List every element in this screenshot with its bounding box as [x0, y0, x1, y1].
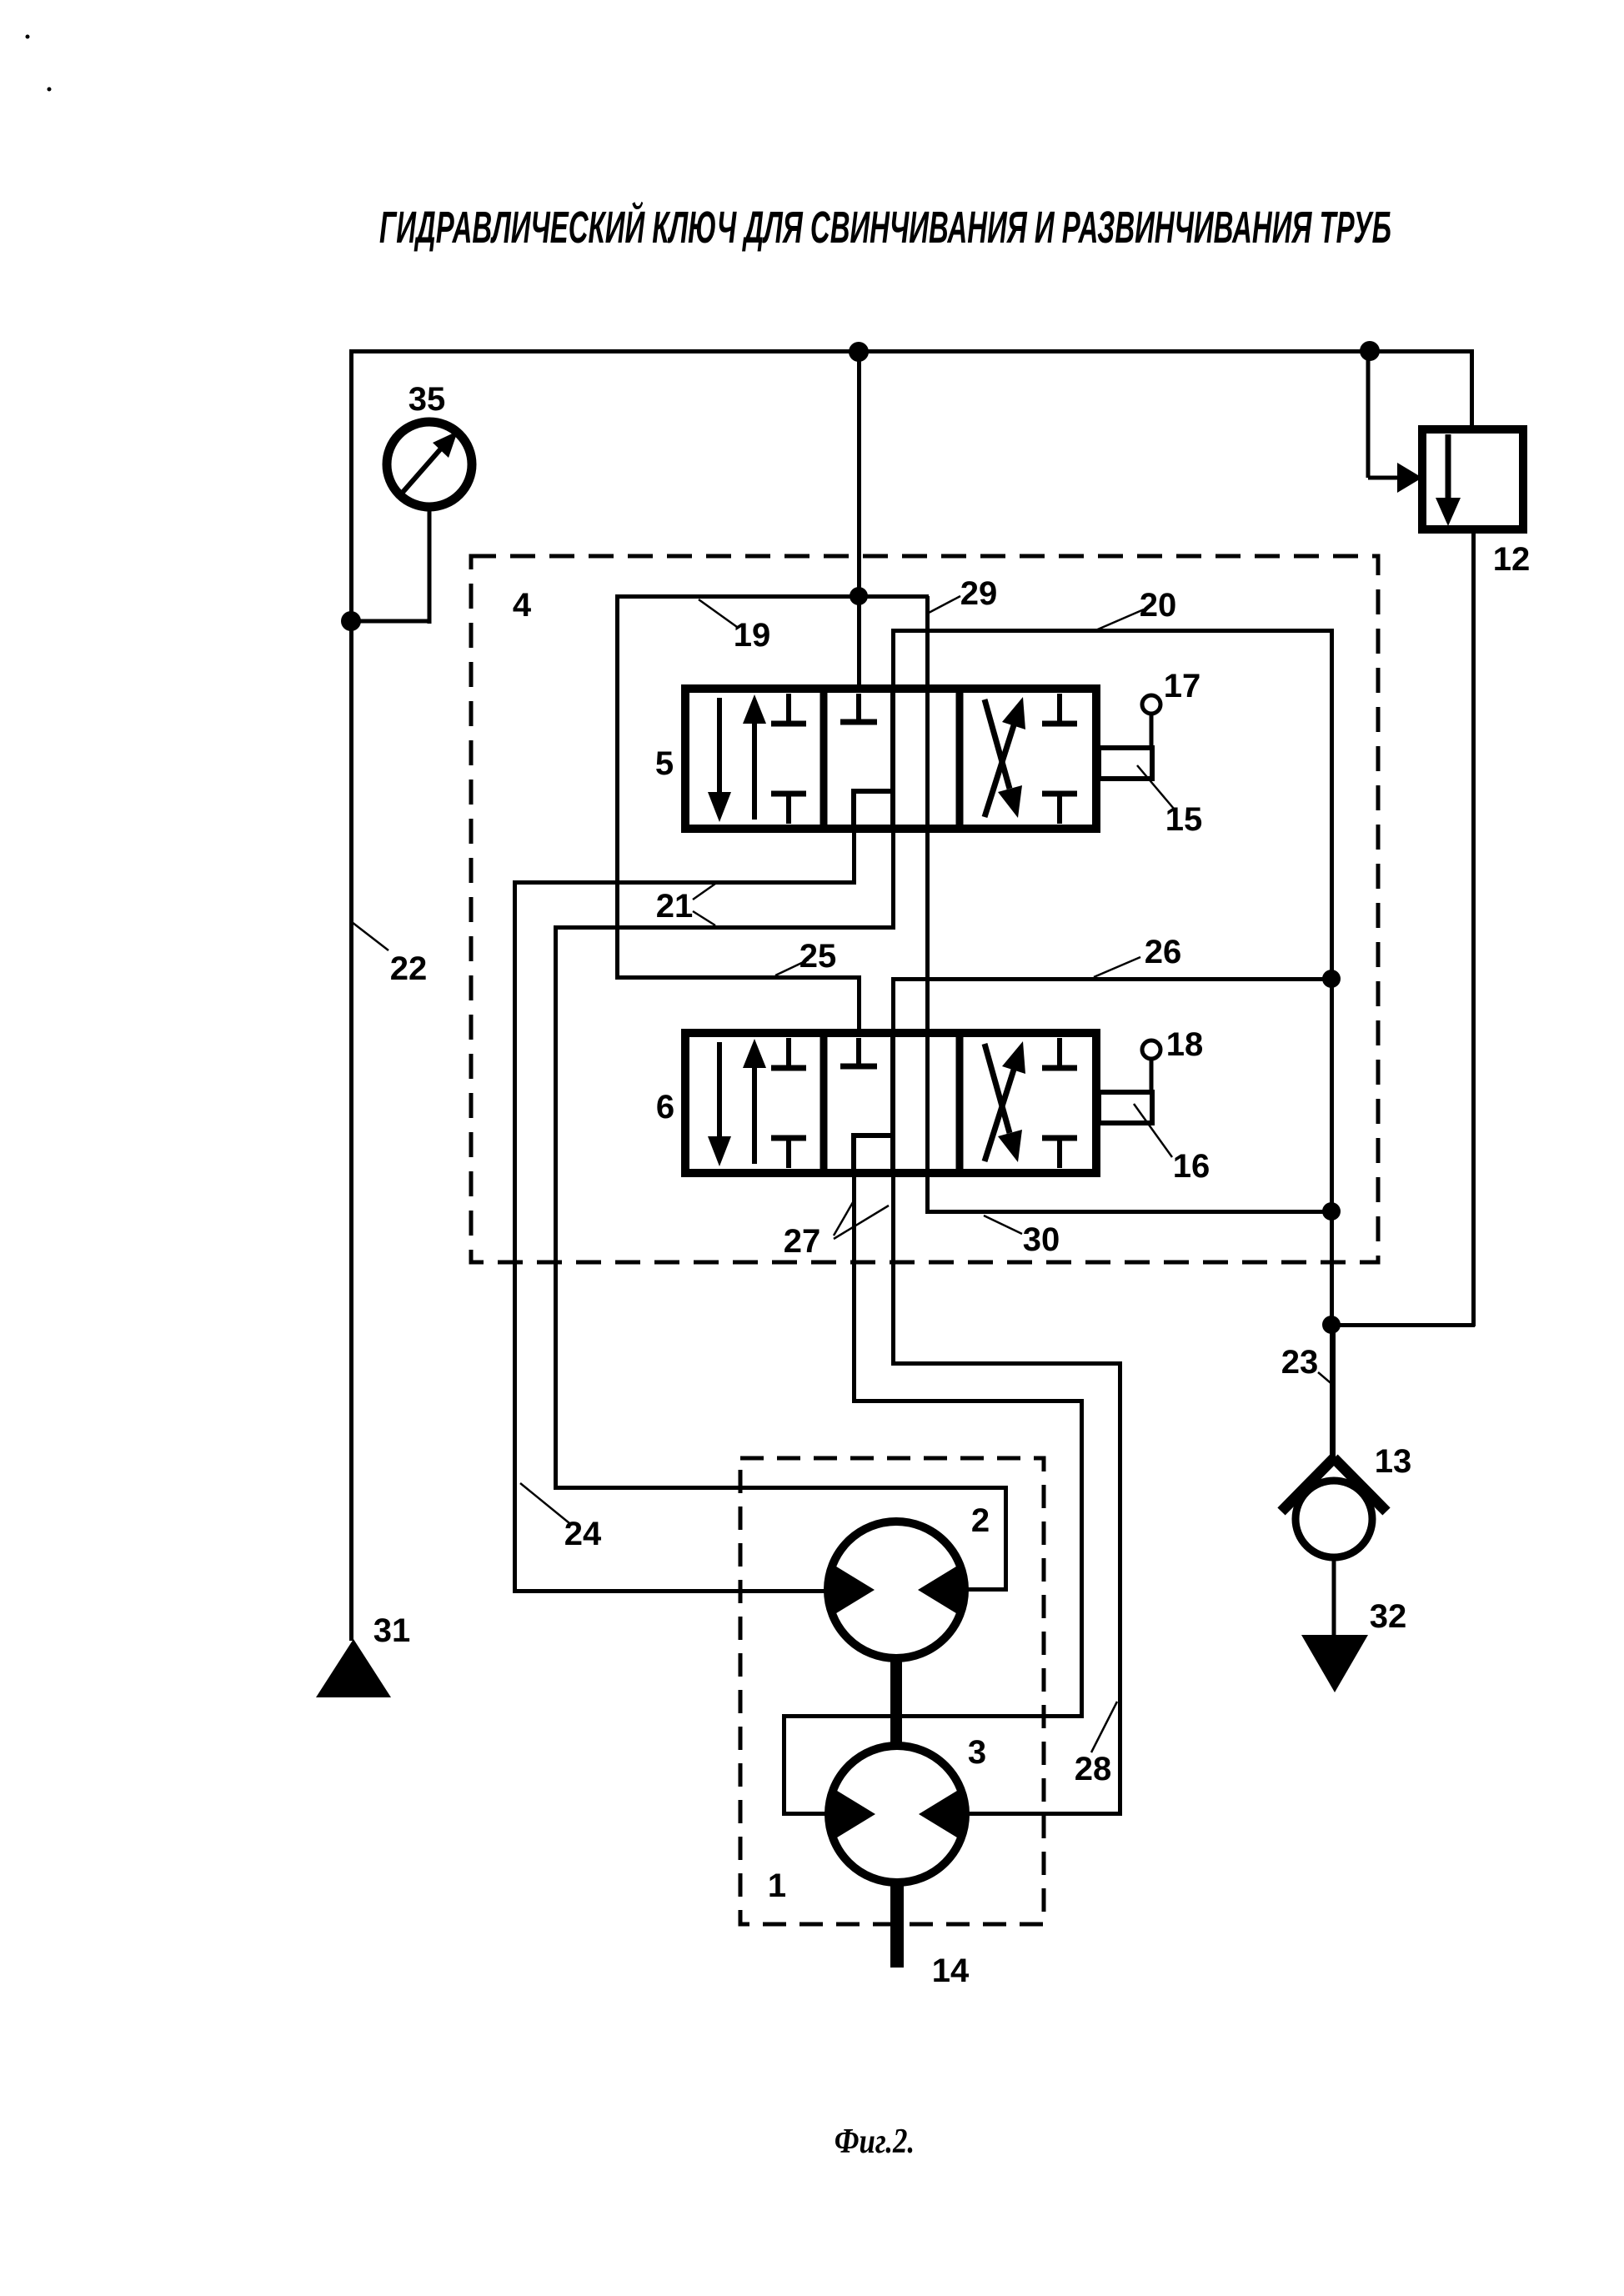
svg-text:21: 21: [656, 888, 694, 925]
tank 32: [1301, 1635, 1368, 1692]
wire 27 right: valve6 B-port toward motor 3: [891, 1173, 895, 1366]
wire 20: top right link: [891, 629, 1333, 633]
leader 24: [520, 1483, 569, 1523]
wire 25: supply link to valve 6: [615, 975, 860, 980]
wire: feed into valve 12 from top: [1367, 349, 1474, 353]
svg-text:29: 29: [960, 575, 998, 612]
scan speck: [26, 35, 30, 39]
svg-text:27: 27: [784, 1223, 821, 1260]
pressure relief valve 12: [1368, 351, 1523, 529]
wire: main supply top horizontal: [349, 349, 1371, 353]
leader 28: [1091, 1702, 1117, 1752]
svg-text:ГИДРАВЛИЧЕСКИЙ КЛЮЧ ДЛЯ СВИНЧ: ГИДРАВЛИЧЕСКИЙ КЛЮЧ ДЛЯ СВИНЧИВАНИЯ И РА…: [379, 201, 1391, 253]
node: junction 23/12 return: [1322, 1316, 1341, 1334]
svg-text:25: 25: [799, 938, 837, 975]
scan speck: [48, 88, 52, 92]
node: junction supply/loop19: [850, 587, 868, 605]
svg-text:23: 23: [1281, 1344, 1319, 1381]
title: [379, 201, 1391, 253]
leader 23: [1318, 1372, 1335, 1386]
hydraulic motor 2: [828, 1521, 965, 1658]
svg-text:19: 19: [734, 617, 771, 654]
wire 29: through-line right of valve sections: [925, 596, 930, 1213]
wire 23: riser to check valve: [1331, 1325, 1336, 1458]
leader 30: [984, 1216, 1022, 1234]
wire 21 lower: valve5 B-port to motor 2 right: [891, 829, 895, 927]
node: junction 30/right riser: [1322, 1202, 1341, 1221]
node: junction gauge branch: [341, 611, 361, 631]
node: junction 26/right riser: [1322, 970, 1341, 988]
shaft between motors: [890, 1657, 902, 1748]
svg-text:2: 2: [971, 1502, 990, 1539]
leader 26: [1094, 957, 1140, 977]
svg-text:20: 20: [1140, 587, 1177, 624]
output shaft 14: [890, 1881, 904, 1968]
lever 16 of valve 6: [1099, 1040, 1160, 1123]
svg-text:16: 16: [1173, 1148, 1210, 1185]
wire: valve 12 outlet down: [1471, 529, 1476, 1326]
leader 19: [699, 599, 737, 627]
svg-text:3: 3: [968, 1734, 986, 1771]
svg-text:13: 13: [1375, 1443, 1412, 1480]
svg-text:22: 22: [390, 950, 428, 987]
svg-text:35: 35: [409, 381, 446, 418]
svg-text:Фиг.2.: Фиг.2.: [835, 2123, 915, 2161]
directional valve 6: [685, 1033, 1096, 1173]
figure caption: [835, 2123, 915, 2161]
wire 26: valve 6 pilot link to right riser: [891, 977, 1333, 981]
leader 16: [1134, 1104, 1172, 1157]
leader 22: [352, 922, 388, 950]
svg-text:12: 12: [1493, 541, 1531, 578]
wire: bottom link from 12 to node 23: [1331, 1323, 1475, 1327]
leader 15: [1137, 765, 1174, 809]
svg-text:14: 14: [932, 1953, 970, 1989]
leader 21: [693, 884, 715, 900]
node: junction top center: [849, 342, 869, 362]
wire: right riser (20 to 23): [1330, 629, 1334, 1460]
directional valve 5: [685, 689, 1096, 829]
dashed enclosure 1 (motor block): [740, 1458, 1044, 1924]
wire: supply drop into valve 5: [857, 352, 861, 689]
leader 25: [775, 960, 809, 975]
tank 31: [316, 1639, 391, 1697]
svg-text:30: 30: [1023, 1221, 1060, 1258]
hydraulic motor 3: [829, 1746, 965, 1882]
svg-text:6: 6: [656, 1089, 674, 1125]
svg-text:24: 24: [564, 1516, 602, 1552]
leader 20: [1094, 609, 1144, 631]
svg-text:28: 28: [1075, 1751, 1112, 1787]
node: junction top right: [1360, 341, 1380, 361]
pressure gauge 35: [349, 422, 472, 624]
leader 27: [834, 1198, 855, 1236]
lever 15 of valve 5: [1099, 695, 1160, 779]
wire 21 upper: valve5 A-port to motor 2 left: [852, 829, 856, 882]
wire 19: loop around valve 5: [615, 594, 929, 599]
wire 30: valve row link to right riser: [925, 1210, 1334, 1214]
svg-text:17: 17: [1164, 668, 1201, 704]
svg-text:31: 31: [373, 1612, 411, 1649]
svg-text:26: 26: [1145, 934, 1182, 970]
wire: left riser to tank 31: [349, 349, 353, 1641]
wire 27 left: valve6 A-port toward motor 3: [852, 1173, 856, 1402]
svg-text:1: 1: [768, 1867, 786, 1904]
dashed enclosure 4: [471, 556, 1378, 1262]
svg-text:32: 32: [1370, 1598, 1407, 1635]
check valve 13: [1281, 1458, 1386, 1636]
svg-text:5: 5: [655, 745, 674, 782]
leader 29: [929, 596, 960, 613]
svg-text:4: 4: [513, 587, 532, 624]
svg-text:18: 18: [1166, 1026, 1204, 1063]
